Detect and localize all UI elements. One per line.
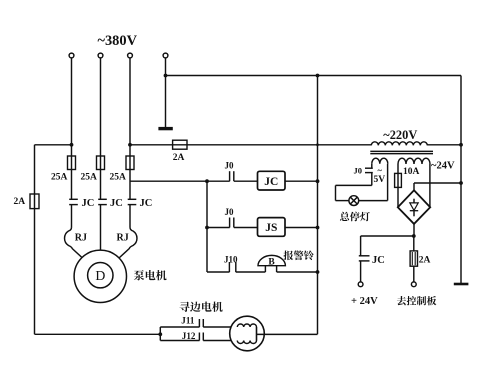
svg-text:JC: JC (372, 255, 385, 266)
wire phase L2 vertical (100, 58, 102, 199)
svg-text:2A: 2A (173, 153, 185, 163)
svg-text:2A: 2A (419, 256, 431, 266)
fuse 25A L3 (126, 156, 134, 170)
transformer secondary 5V winding (372, 158, 388, 164)
fuse 10A (395, 173, 402, 187)
svg-text:JC: JC (140, 198, 153, 209)
supply terminal L2 (98, 53, 103, 58)
svg-text:J0: J0 (354, 165, 363, 175)
fuse 2A (control feed) (173, 140, 187, 149)
node phase L1 tap (70, 143, 74, 147)
relay coil JS box (258, 218, 286, 237)
svg-text:25A: 25A (81, 172, 98, 182)
svg-text:J0: J0 (225, 161, 235, 171)
edge-finder motor circle (230, 316, 265, 351)
node transformer primary / rail (459, 143, 463, 147)
motor winding top bumps (237, 324, 256, 327)
contact J11 (198, 319, 200, 327)
terminal +24V (358, 282, 363, 287)
svg-text:+ 24V: + 24V (351, 296, 378, 307)
wire ladder left vertical (206, 181, 208, 272)
node ladder top junction (316, 74, 320, 78)
bell legs (264, 266, 266, 272)
wire ladder right vertical (317, 76, 319, 335)
branch J12 wire (160, 340, 199, 342)
svg-text:J0: J0 (225, 207, 235, 217)
svg-text:25A: 25A (51, 172, 68, 182)
node plus rail junction (459, 181, 463, 185)
wire bottom horizontal (35, 333, 161, 335)
node rung3-right (316, 270, 320, 274)
node rung2-right (316, 226, 320, 230)
svg-text:B: B (268, 257, 275, 267)
contact J0 (rung 1) (229, 171, 231, 181)
node phase L3 tap (128, 143, 132, 147)
wire lamp loop (336, 184, 372, 186)
node split block (158, 332, 162, 336)
alarm bell B dome (258, 255, 285, 265)
supply terminal L1 (69, 53, 74, 58)
svg-text:~24V: ~24V (431, 161, 455, 172)
node neutral top junction (164, 74, 168, 78)
svg-text:JC: JC (82, 198, 95, 209)
wire far-left vertical (34, 145, 36, 334)
wire bridge plus output (413, 183, 415, 190)
lamp (stop light) (349, 196, 359, 206)
wire to JC contact branch (361, 235, 414, 237)
contact J0 (rung 2) (229, 218, 231, 228)
contact J10 (228, 262, 230, 272)
rung 3 wire (J10 - bell) (207, 271, 230, 273)
label pump motor (Chinese) (134, 270, 167, 280)
split block left vertical (159, 327, 161, 341)
svg-text:~220V: ~220V (383, 128, 417, 142)
motor D (pump motor) outer circle (74, 250, 126, 302)
label edge-finder motor (Chinese) (179, 302, 222, 312)
svg-text:10A: 10A (403, 167, 420, 177)
supply terminal L3 (128, 53, 133, 58)
wire motor output to ladder vertical (257, 333, 318, 335)
svg-text:~: ~ (378, 165, 383, 175)
svg-text:D: D (95, 268, 105, 283)
svg-text:J11: J11 (181, 316, 195, 326)
contact J0 (lamp circuit) (365, 167, 373, 169)
bridge rectifier diamond (398, 190, 430, 224)
contact J12 (198, 333, 200, 341)
fuse 25A L2 (97, 156, 105, 170)
contact JC (24V output) (359, 255, 370, 257)
fuse 2A (control board) (410, 251, 417, 266)
svg-text:JC: JC (110, 198, 123, 209)
svg-text:25A: 25A (110, 172, 127, 182)
svg-text:J10: J10 (224, 254, 238, 264)
wire left branch horizontal (35, 144, 72, 146)
svg-text:RJ: RJ (117, 233, 129, 244)
wire primary right to right vertical (427, 144, 461, 146)
fuse 2A (left branch) (30, 194, 39, 209)
transformer core (370, 150, 433, 152)
wire control feed horizontal (130, 144, 371, 146)
wire right vertical rail (460, 76, 462, 284)
svg-text:J12: J12 (182, 331, 196, 341)
relay coil JC box (258, 171, 286, 190)
label to control board (Chinese) (397, 296, 436, 305)
rung 1 wire (J0 - JC coil) (130, 180, 230, 182)
svg-text:JC: JC (264, 176, 278, 188)
svg-text:5V: 5V (374, 175, 386, 185)
svg-text:~380V: ~380V (98, 33, 138, 49)
node minus junction (412, 234, 416, 238)
transformer primary winding (371, 142, 427, 146)
wire 2A fuse branch (413, 236, 415, 251)
diode inside bridge (413, 199, 415, 203)
thermal relay RJ (L1) (65, 227, 83, 258)
earth bar (158, 127, 172, 130)
thermal relay RJ (L3) (119, 227, 137, 258)
label alarm bell (Chinese) (284, 250, 314, 260)
right rail end bar (454, 283, 469, 286)
svg-text:RJ: RJ (75, 233, 87, 244)
motor winding bottom bumps (237, 341, 256, 344)
motor D inner circle (88, 263, 113, 288)
node rung1-right (316, 179, 320, 183)
branch J11 wire (160, 326, 199, 328)
rung 2 wire (J0 - JS coil) (207, 227, 230, 229)
wire top neutral horizontal (166, 75, 462, 77)
supply terminal N (163, 53, 168, 58)
wire 24V winding right to bridge (429, 164, 431, 207)
contactor contact JC (L2) (98, 198, 107, 200)
wire phase L3 vertical (129, 58, 131, 199)
transformer secondary 24V winding (398, 158, 430, 164)
wire 24V winding left to fuse (397, 164, 399, 207)
wire neutral vertical (165, 58, 167, 128)
fuse 25A L1 (68, 156, 76, 170)
svg-text:JS: JS (265, 222, 277, 234)
contactor contact JC (L1) (69, 198, 78, 200)
wire phase L1 vertical (71, 58, 73, 199)
node crossing at ladder vertical (316, 143, 319, 146)
wire bridge minus down (413, 224, 415, 236)
svg-text:2A: 2A (14, 197, 26, 207)
wire lamp right to 5V right terminal (359, 200, 388, 202)
motor winding right bar (256, 327, 258, 341)
contactor contact JC (L3) (128, 198, 137, 200)
label main stop lamp (Chinese) (340, 212, 370, 222)
node rung2-left (205, 226, 209, 230)
wire 5V left terminal down (371, 164, 373, 168)
node rung1-left (205, 179, 209, 183)
terminal to control board (411, 282, 416, 287)
